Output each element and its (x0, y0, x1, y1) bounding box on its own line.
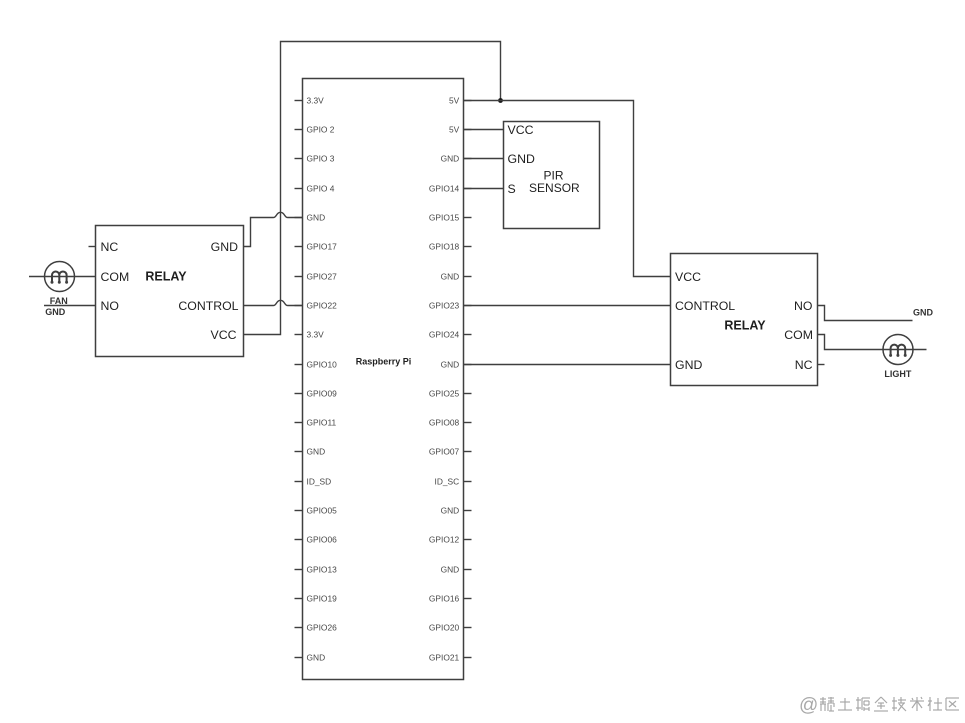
K2 NC stub wire (818, 364, 825, 366)
svg-text:CONTROL: CONTROL (675, 299, 735, 313)
U1 right pin GPIO20 (row 19) (429, 622, 472, 632)
svg-text:@: @ (799, 695, 818, 716)
U1 left pin GND (row 20) (295, 652, 326, 662)
K1 pin VCC (211, 328, 237, 342)
svg-text:GPIO12: GPIO12 (429, 534, 460, 544)
svg-text:GPIO13: GPIO13 (307, 564, 338, 574)
svg-text:GPIO 3: GPIO 3 (307, 153, 335, 163)
svg-text:NO: NO (794, 299, 812, 313)
svg-text:VCC: VCC (508, 123, 534, 137)
net label LIGHT (884, 369, 911, 379)
U1 left pin GPIO11 (row 12) (295, 417, 337, 427)
svg-text:GPIO07: GPIO07 (429, 446, 460, 456)
wire U1 5V to K2 VCC (464, 101, 671, 277)
U1 left pin GPIO19 (row 18) (295, 593, 338, 603)
wire U1 GND to U2 GND (464, 158, 504, 160)
svg-text:GND: GND (307, 212, 326, 222)
svg-text:GPIO05: GPIO05 (307, 505, 338, 515)
U1 left pin GPIO22 (row 8) (295, 300, 338, 310)
svg-text:GPIO15: GPIO15 (429, 212, 460, 222)
svg-text:GND: GND (441, 564, 460, 574)
wire U1 GPIO23 to K2 CONTROL (464, 305, 671, 307)
U1 right pin GPIO23 (row 8) (429, 300, 472, 310)
U1 right pin GND (row 7) (441, 271, 472, 281)
U1 left pin GPIO17 (row 6) (295, 241, 338, 251)
svg-text:GND: GND (211, 240, 238, 254)
U1 left pin GPIO05 (row 15) (295, 505, 338, 515)
net label GND (light relay NO) (913, 307, 934, 317)
U1 left pin GPIO27 (row 7) (295, 271, 338, 281)
U1 right pin 5V (row 1) (449, 95, 472, 105)
U1 right pin GND (row 10) (441, 359, 472, 369)
svg-text:S: S (508, 182, 516, 196)
wire K2 COM to light (818, 335, 927, 350)
svg-text:GND: GND (508, 152, 535, 166)
U1 right pin GND (row 15) (441, 505, 472, 515)
U1 left pin GPIO 4 (row 4) (295, 183, 335, 193)
K2 pin GND (675, 358, 702, 372)
U1 right pin GND (row 3) (441, 153, 472, 163)
svg-text:GND: GND (675, 358, 702, 372)
svg-text:VCC: VCC (675, 270, 701, 284)
U1 left pin GPIO 2 (row 2) (295, 124, 335, 134)
motor M1 (FAN) (45, 262, 75, 292)
U1 left pin GPIO10 (row 10) (295, 359, 338, 369)
svg-text:RELAY: RELAY (145, 270, 187, 284)
svg-text:RELAY: RELAY (724, 318, 766, 332)
wire U1 GND to K2 GND (464, 364, 671, 366)
K1 pin CONTROL (178, 299, 238, 313)
PIR sensor U2 (504, 122, 600, 229)
svg-text:5V: 5V (449, 95, 460, 105)
U1 left pin GPIO09 (row 11) (295, 388, 338, 398)
svg-text:GPIO21: GPIO21 (429, 652, 460, 662)
U1 right pin GPIO16 (row 18) (429, 593, 472, 603)
svg-text:GPIO25: GPIO25 (429, 388, 460, 398)
U1 left pin 3.3V (row 9) (295, 329, 325, 339)
wire U1 GPIO14 to U2 S (464, 188, 504, 190)
U1 right pin 5V (row 2) (449, 124, 472, 134)
K1 pin NC (101, 240, 119, 254)
U1 right pin GPIO21 (row 20) (429, 652, 472, 662)
svg-text:GND: GND (307, 446, 326, 456)
svg-text:GND: GND (441, 271, 460, 281)
svg-text:GPIO 2: GPIO 2 (307, 124, 335, 134)
U1 right pin GPIO14 (row 4) (429, 183, 472, 193)
U1 left pin GPIO 3 (row 3) (295, 153, 335, 163)
svg-text:GPIO26: GPIO26 (307, 622, 338, 632)
K1 NC stub wire (89, 246, 96, 248)
svg-text:COM: COM (101, 270, 130, 284)
U2 pin VCC (508, 123, 534, 137)
svg-text:GPIO17: GPIO17 (307, 241, 338, 251)
wire K1 COM to fan (29, 276, 96, 278)
U2 pin GND (508, 152, 535, 166)
svg-text:GPIO20: GPIO20 (429, 622, 460, 632)
svg-text:GND: GND (441, 359, 460, 369)
svg-text:GPIO24: GPIO24 (429, 329, 460, 339)
svg-text:NC: NC (101, 240, 119, 254)
K2 pin VCC (675, 270, 701, 284)
svg-text:ID_SC: ID_SC (435, 476, 460, 486)
svg-text:NC: NC (795, 358, 813, 372)
svg-text:GND: GND (913, 307, 934, 317)
wire K1 VCC to 5V loop (vertical + top run) (244, 42, 501, 335)
U1 left pin GND (row 5) (295, 212, 326, 222)
U1 right pin ID_SC (row 14) (435, 476, 472, 486)
U1 right pin GPIO07 (row 13) (429, 446, 472, 456)
svg-text:NO: NO (101, 299, 119, 313)
svg-text:3.3V: 3.3V (307, 95, 325, 105)
svg-text:GPIO 4: GPIO 4 (307, 183, 335, 193)
U1 left pin GPIO13 (row 17) (295, 564, 338, 574)
svg-text:GND: GND (441, 153, 460, 163)
svg-text:GPIO18: GPIO18 (429, 241, 460, 251)
svg-text:5V: 5V (449, 124, 460, 134)
wire K1 NO to FAN GND net (44, 305, 96, 307)
svg-text:COM: COM (784, 328, 813, 342)
U1 left pin GND (row 13) (295, 446, 326, 456)
relay K2 (LIGHT relay) (671, 254, 818, 386)
junction 5V node (498, 98, 503, 103)
svg-text:GPIO10: GPIO10 (307, 359, 338, 369)
svg-text:GPIO16: GPIO16 (429, 593, 460, 603)
Raspberry Pi U1 (303, 79, 464, 680)
U1 left pin 3.3V (row 1) (295, 95, 325, 105)
svg-text:GPIO06: GPIO06 (307, 534, 338, 544)
K2 pin CONTROL (675, 299, 735, 313)
svg-text:GPIO19: GPIO19 (307, 593, 338, 603)
U1 right pin GND (row 17) (441, 564, 472, 574)
svg-text:GND: GND (441, 505, 460, 515)
U1 right pin GPIO12 (row 16) (429, 534, 472, 544)
svg-text:GND: GND (307, 652, 326, 662)
svg-text:GPIO08: GPIO08 (429, 417, 460, 427)
K2 pin NC (795, 358, 813, 372)
K1 pin GND (211, 240, 238, 254)
svg-text:FAN: FAN (50, 296, 68, 306)
relay K1 (FAN relay) (96, 226, 244, 357)
net label GND (fan) (45, 307, 66, 317)
U2 pin S (508, 182, 516, 196)
net label FAN (50, 296, 68, 306)
svg-text:VCC: VCC (211, 328, 237, 342)
svg-text:GPIO14: GPIO14 (429, 183, 460, 193)
K2 pin NO (794, 299, 812, 313)
svg-text:CONTROL: CONTROL (178, 299, 238, 313)
U1 right pin GPIO08 (row 12) (429, 417, 472, 427)
svg-text:GPIO22: GPIO22 (307, 300, 338, 310)
K1 pin COM (101, 270, 130, 284)
U1 right pin GPIO25 (row 11) (429, 388, 472, 398)
K2 pin COM (784, 328, 813, 342)
svg-text:3.3V: 3.3V (307, 329, 325, 339)
svg-text:GPIO23: GPIO23 (429, 300, 460, 310)
wire U1 5V to U2 VCC (464, 129, 504, 131)
U1 left pin ID_SD (row 14) (295, 476, 332, 486)
svg-text:GPIO09: GPIO09 (307, 388, 338, 398)
motor M2 (LIGHT) (883, 335, 913, 365)
U1 left pin GPIO06 (row 16) (295, 534, 338, 544)
U1 right pin GPIO15 (row 5) (429, 212, 472, 222)
U1 right pin GPIO24 (row 9) (429, 329, 472, 339)
K1 pin NO (101, 299, 119, 313)
svg-text:GPIO11: GPIO11 (307, 417, 337, 427)
svg-text:GND: GND (45, 307, 66, 317)
U1 right pin GPIO18 (row 6) (429, 241, 472, 251)
svg-text:Raspberry Pi: Raspberry Pi (356, 356, 412, 366)
svg-text:SENSOR: SENSOR (529, 181, 580, 195)
watermark (799, 695, 959, 716)
svg-text:GPIO27: GPIO27 (307, 271, 338, 281)
U1 left pin GPIO26 (row 19) (295, 622, 338, 632)
wire K1 CONTROL to U1 GPIO22 (with hop) (244, 300, 303, 305)
svg-text:LIGHT: LIGHT (884, 369, 911, 379)
wire K2 NO to GND net (818, 306, 913, 321)
wire K1 GND to U1 GND (with hop) (244, 212, 303, 246)
svg-text:ID_SD: ID_SD (307, 476, 332, 486)
